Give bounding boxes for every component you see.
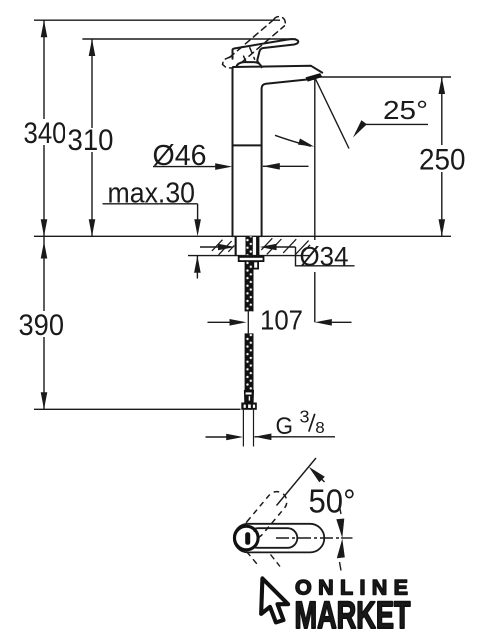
- svg-text:Ø34: Ø34: [300, 241, 349, 271]
- svg-text:3: 3: [300, 406, 310, 426]
- svg-text:Ø46: Ø46: [153, 140, 207, 172]
- svg-text:25°: 25°: [383, 95, 428, 125]
- svg-text:310: 310: [68, 124, 114, 157]
- svg-text:MARKET: MARKET: [295, 595, 411, 637]
- svg-text:G: G: [276, 413, 294, 440]
- svg-text:340: 340: [24, 117, 67, 150]
- svg-text:8: 8: [315, 420, 325, 437]
- svg-text:390: 390: [19, 309, 65, 342]
- svg-text:107: 107: [260, 305, 303, 336]
- svg-text:50°: 50°: [309, 483, 356, 520]
- svg-text:max.30: max.30: [108, 177, 196, 209]
- svg-text:250: 250: [419, 144, 466, 177]
